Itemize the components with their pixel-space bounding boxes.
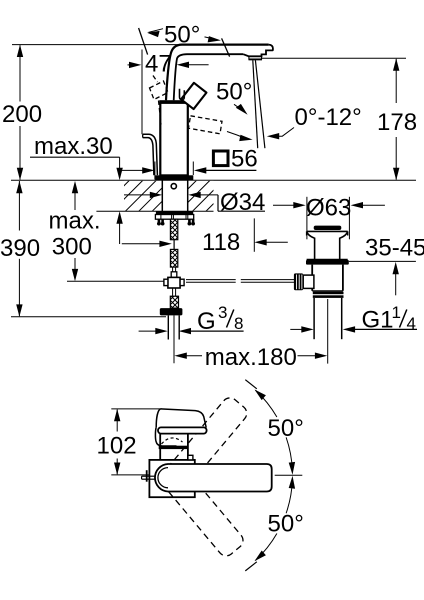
svg-text:200: 200 (2, 101, 42, 128)
svg-text:4: 4 (407, 314, 416, 333)
svg-text:300: 300 (52, 234, 92, 261)
svg-text:50°: 50° (216, 78, 252, 105)
svg-text:47: 47 (145, 50, 172, 77)
svg-text:0°-12°: 0°-12° (295, 104, 362, 131)
svg-text:Ø63: Ø63 (306, 194, 351, 221)
svg-text:178: 178 (377, 109, 417, 136)
svg-text:390: 390 (0, 235, 40, 262)
svg-text:102: 102 (97, 433, 137, 460)
svg-text:35-45: 35-45 (365, 234, 424, 261)
svg-text:max.30: max.30 (34, 133, 113, 160)
svg-text:max.180: max.180 (205, 344, 297, 371)
svg-text:3: 3 (218, 303, 227, 322)
svg-text:50°: 50° (268, 511, 304, 538)
svg-text:56: 56 (231, 146, 258, 173)
svg-text:max.: max. (49, 207, 101, 234)
svg-text:1: 1 (392, 303, 401, 322)
svg-text:50°: 50° (268, 415, 304, 442)
svg-text:118: 118 (202, 229, 240, 256)
svg-text:50°: 50° (164, 22, 200, 49)
svg-text:8: 8 (234, 314, 243, 333)
